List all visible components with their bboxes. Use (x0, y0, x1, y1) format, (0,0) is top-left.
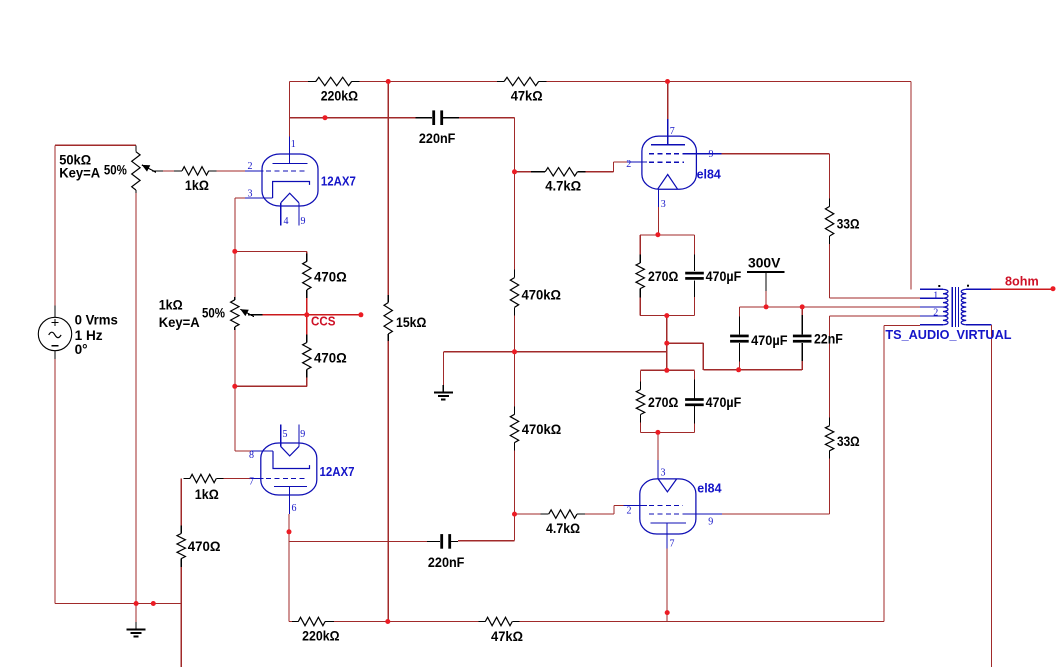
svg-text:1: 1 (933, 291, 938, 302)
svg-text:220kΩ: 220kΩ (302, 629, 339, 644)
svg-text:1kΩ: 1kΩ (159, 297, 183, 312)
svg-text:33Ω: 33Ω (837, 216, 860, 231)
svg-text:50%: 50% (202, 306, 225, 321)
svg-text:220kΩ: 220kΩ (321, 89, 358, 104)
svg-text:12AX7: 12AX7 (321, 174, 356, 188)
svg-text:1kΩ: 1kΩ (185, 178, 209, 193)
svg-text:3: 3 (661, 468, 666, 479)
svg-text:el84: el84 (697, 168, 721, 182)
svg-text:22nF: 22nF (814, 331, 843, 346)
svg-text:270Ω: 270Ω (648, 395, 678, 410)
svg-text:300V: 300V (748, 256, 781, 271)
svg-text:1kΩ: 1kΩ (195, 487, 219, 502)
svg-text:el84: el84 (697, 482, 721, 496)
svg-text:7: 7 (249, 477, 254, 488)
svg-text:220nF: 220nF (419, 131, 456, 146)
svg-text:470µF: 470µF (706, 395, 742, 410)
svg-text:470kΩ: 470kΩ (522, 288, 562, 303)
svg-text:1 Hz: 1 Hz (75, 328, 103, 343)
svg-text:9: 9 (301, 216, 306, 227)
svg-text:4.7kΩ: 4.7kΩ (546, 521, 580, 536)
svg-text:9: 9 (300, 429, 305, 440)
svg-text:470kΩ: 470kΩ (522, 422, 562, 437)
svg-text:9: 9 (708, 517, 713, 528)
svg-text:15kΩ: 15kΩ (396, 315, 426, 330)
svg-text:12AX7: 12AX7 (320, 465, 355, 479)
svg-text:6: 6 (292, 503, 297, 514)
svg-text:33Ω: 33Ω (837, 434, 860, 449)
svg-text:8ohm: 8ohm (1005, 273, 1039, 288)
svg-text:Key=A: Key=A (159, 315, 200, 330)
svg-text:3: 3 (661, 199, 666, 210)
svg-text:470Ω: 470Ω (314, 351, 347, 366)
svg-text:50%: 50% (104, 162, 127, 177)
svg-text:220nF: 220nF (428, 555, 465, 570)
svg-text:47kΩ: 47kΩ (491, 629, 523, 644)
svg-text:0°: 0° (75, 342, 88, 357)
svg-text:9: 9 (709, 149, 714, 160)
svg-text:Key=A: Key=A (59, 165, 100, 180)
svg-text:2: 2 (626, 159, 631, 170)
svg-text:1: 1 (291, 139, 296, 150)
svg-text:7: 7 (670, 126, 675, 137)
svg-text:7: 7 (670, 539, 675, 550)
svg-text:470µF: 470µF (706, 269, 742, 284)
svg-text:TS_AUDIO_VIRTUAL: TS_AUDIO_VIRTUAL (885, 328, 1011, 342)
svg-text:0 Vrms: 0 Vrms (75, 313, 119, 328)
svg-text:8: 8 (249, 450, 254, 461)
svg-text:5: 5 (283, 429, 288, 440)
svg-text:470µF: 470µF (751, 333, 787, 348)
svg-text:270Ω: 270Ω (648, 269, 678, 284)
svg-text:2: 2 (627, 506, 632, 517)
svg-text:2: 2 (933, 307, 938, 318)
svg-text:CCS: CCS (311, 313, 336, 328)
svg-text:470Ω: 470Ω (314, 269, 347, 284)
svg-text:47kΩ: 47kΩ (511, 89, 543, 104)
svg-text:2: 2 (248, 161, 253, 172)
svg-text:4.7kΩ: 4.7kΩ (545, 178, 581, 193)
svg-text:3: 3 (248, 189, 253, 200)
svg-text:470Ω: 470Ω (188, 539, 221, 554)
svg-text:4: 4 (284, 216, 289, 227)
